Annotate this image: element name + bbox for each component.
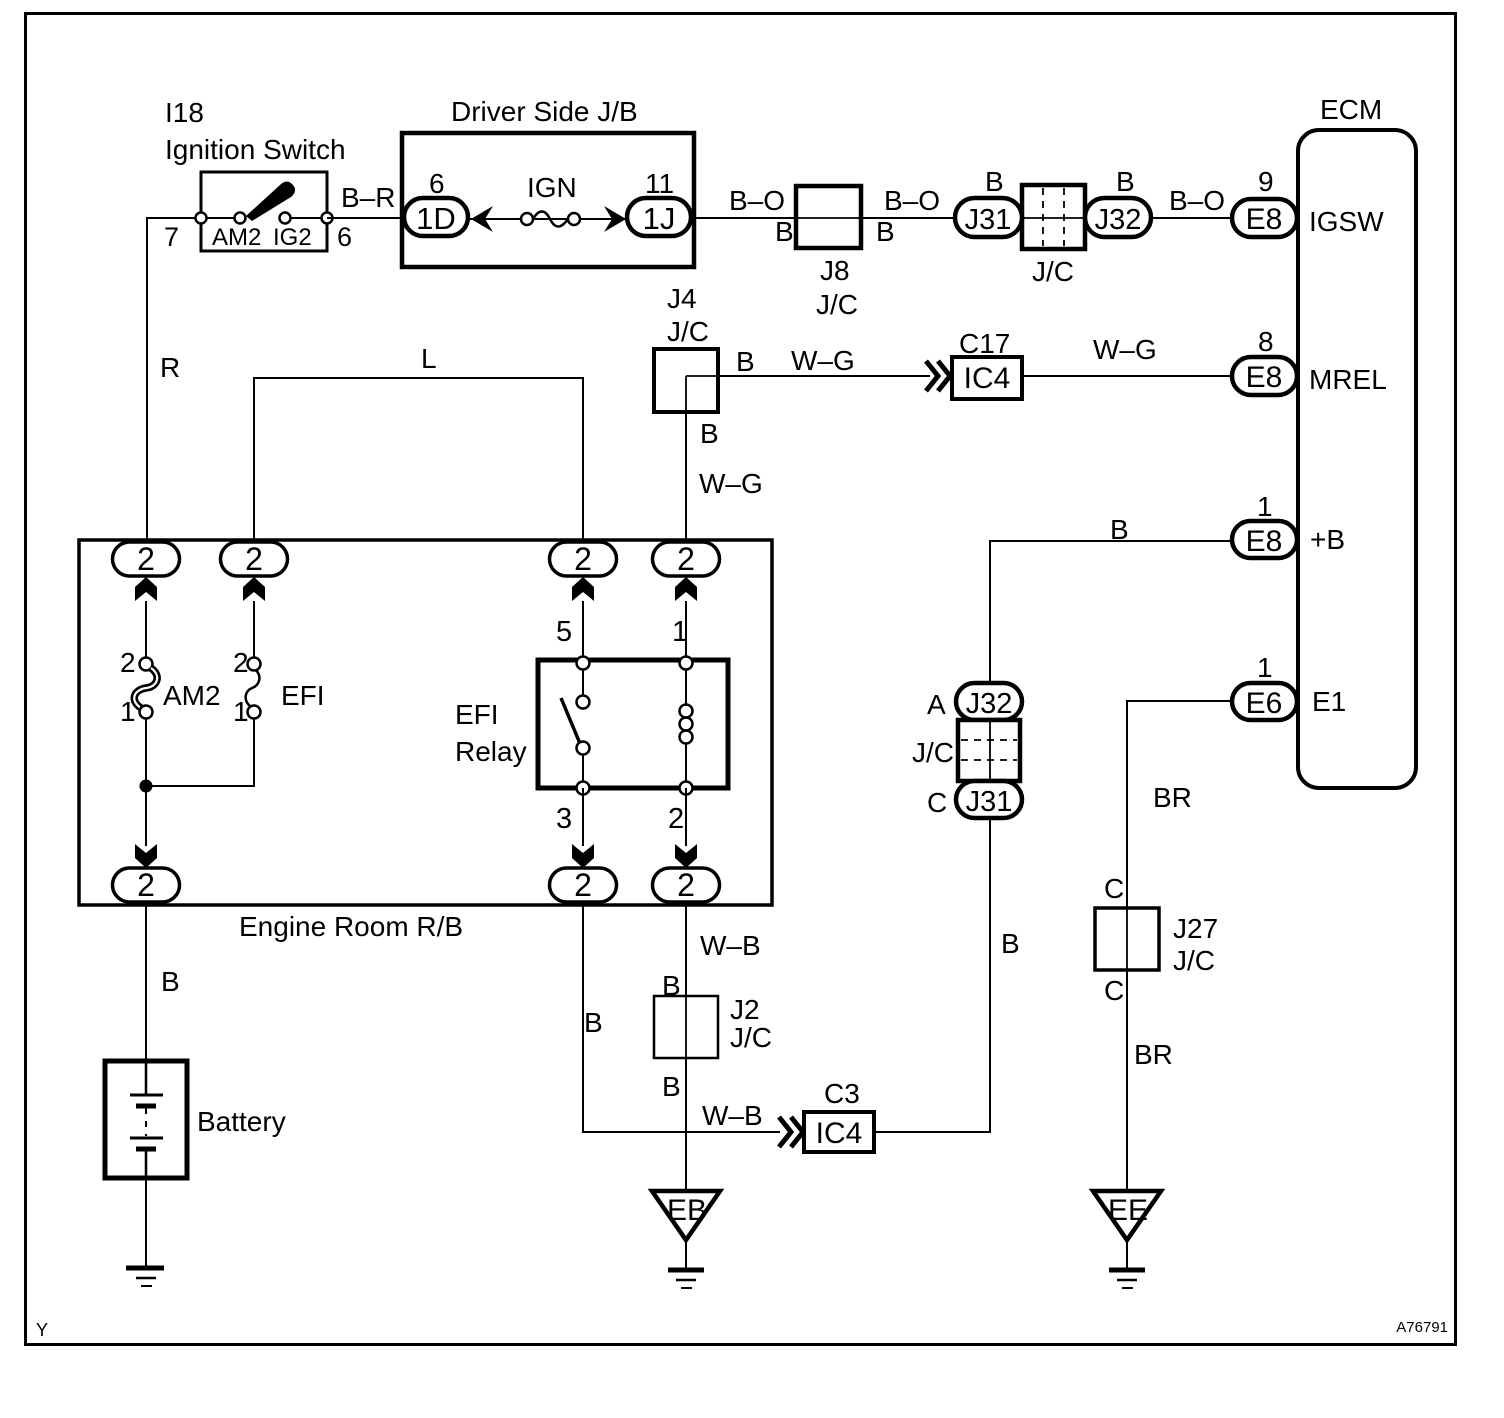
svg-text:2: 2 bbox=[677, 867, 695, 903]
svg-text:2: 2 bbox=[574, 867, 592, 903]
svg-text:A: A bbox=[927, 689, 946, 720]
svg-text:J31: J31 bbox=[965, 204, 1012, 236]
svg-text:B: B bbox=[662, 1071, 681, 1102]
connector 2 top relay5 bbox=[550, 542, 617, 576]
wire: switch internal IG2 side bbox=[285, 217, 327, 219]
svg-text:BR: BR bbox=[1134, 1039, 1173, 1070]
svg-text:W–G: W–G bbox=[699, 468, 763, 499]
connector J31 right column bbox=[956, 781, 1022, 818]
svg-text:EFI: EFI bbox=[281, 680, 325, 711]
svg-text:IG2: IG2 bbox=[273, 224, 312, 251]
svg-text:+B: +B bbox=[1310, 524, 1345, 555]
svg-text:BR: BR bbox=[1153, 782, 1192, 813]
svg-text:1: 1 bbox=[1257, 491, 1273, 522]
wire J4 to C17 bbox=[686, 375, 930, 377]
switch contact AM2 bbox=[235, 213, 246, 224]
wire battery to ground bbox=[145, 1178, 147, 1268]
junction connector J27 box bbox=[1095, 908, 1159, 970]
connector J31 bbox=[955, 198, 1022, 237]
arrow up col relay1 bbox=[675, 577, 697, 601]
connector E8 pin 9 IGSW bbox=[1232, 199, 1297, 237]
svg-text:J32: J32 bbox=[1095, 204, 1142, 236]
svg-text:2: 2 bbox=[245, 541, 263, 577]
wire through J8 bbox=[796, 217, 861, 219]
svg-text:2: 2 bbox=[137, 867, 155, 903]
connector 2 top EFI bbox=[221, 542, 288, 576]
svg-text:Relay: Relay bbox=[455, 736, 527, 767]
wire relay3 down bbox=[582, 788, 584, 846]
svg-text:7: 7 bbox=[164, 222, 179, 252]
svg-text:J4: J4 bbox=[667, 283, 697, 314]
connector E8 pin 1 +B bbox=[1232, 521, 1297, 558]
switch terminal pin 6 bbox=[322, 213, 333, 224]
svg-text:2: 2 bbox=[668, 803, 684, 835]
wire col EFI lower to junction bbox=[152, 718, 254, 786]
svg-text:W–B: W–B bbox=[702, 1100, 763, 1131]
wire relay3 to C3 bbox=[583, 902, 780, 1132]
ground EE bbox=[1093, 1191, 1161, 1240]
svg-text:J2: J2 bbox=[730, 994, 760, 1025]
svg-text:IC4: IC4 bbox=[964, 362, 1011, 395]
arrow up col AM2 bbox=[135, 577, 157, 601]
connector 1D bbox=[404, 198, 468, 236]
wire B-R switch to J/B bbox=[327, 217, 404, 219]
svg-text:J27: J27 bbox=[1173, 913, 1218, 944]
ECM box bbox=[1298, 130, 1416, 788]
arrow right at 1J bbox=[604, 206, 626, 232]
wire R: ignition switch pin7 left + down to Engine Room R/B bbox=[147, 218, 201, 542]
svg-text:I18: I18 bbox=[165, 97, 204, 128]
svg-text:B: B bbox=[1110, 514, 1129, 545]
svg-text:J/C: J/C bbox=[730, 1022, 772, 1053]
svg-text:ECM: ECM bbox=[1320, 94, 1382, 125]
wire relay1 col bbox=[685, 601, 687, 660]
svg-text:EFI: EFI bbox=[455, 699, 499, 730]
arrow left at 1D bbox=[471, 206, 493, 232]
wire col AM2 lower bbox=[145, 718, 147, 846]
svg-text:MREL: MREL bbox=[1309, 364, 1387, 395]
fuse AM2 bbox=[140, 658, 153, 671]
junction connector J8 box bbox=[796, 186, 861, 248]
svg-text:L: L bbox=[421, 343, 437, 374]
svg-text:B: B bbox=[584, 1007, 603, 1038]
svg-text:B: B bbox=[1001, 928, 1020, 959]
svg-text:1D: 1D bbox=[416, 201, 456, 236]
svg-text:B: B bbox=[876, 216, 895, 247]
wire J32 to E8 bbox=[1151, 217, 1235, 219]
fuse IGN bbox=[521, 213, 533, 225]
svg-text:EE: EE bbox=[1108, 1194, 1148, 1227]
svg-text:IGN: IGN bbox=[527, 172, 577, 203]
switch contact IG2 bbox=[280, 213, 291, 224]
relay contact circles left bbox=[577, 657, 590, 670]
svg-text:C: C bbox=[927, 787, 947, 818]
svg-text:IC4: IC4 bbox=[816, 1117, 863, 1150]
svg-text:C: C bbox=[1104, 975, 1124, 1006]
wire battery column bbox=[145, 902, 147, 1097]
svg-text:8: 8 bbox=[1258, 326, 1274, 357]
EFI relay box bbox=[538, 660, 728, 788]
svg-text:6: 6 bbox=[337, 222, 352, 252]
svg-text:B–O: B–O bbox=[729, 185, 785, 216]
svg-text:11: 11 bbox=[645, 168, 674, 199]
svg-text:Ignition Switch: Ignition Switch bbox=[165, 134, 346, 165]
svg-text:J32: J32 bbox=[966, 688, 1013, 720]
wire: switch internal AM2 side bbox=[201, 217, 240, 219]
svg-text:C17: C17 bbox=[959, 328, 1010, 359]
connector C17 IC4 box bbox=[952, 357, 1022, 399]
arrow down col relay3 bbox=[572, 844, 594, 868]
relay switch blade bbox=[561, 698, 581, 746]
svg-text:E6: E6 bbox=[1246, 687, 1283, 720]
svg-text:Y: Y bbox=[36, 1320, 48, 1340]
svg-text:J/C: J/C bbox=[1173, 945, 1215, 976]
svg-text:E8: E8 bbox=[1246, 525, 1283, 558]
relay coil bbox=[680, 705, 693, 718]
svg-text:3: 3 bbox=[556, 803, 572, 835]
svg-text:J8: J8 bbox=[820, 255, 850, 286]
svg-text:J/C: J/C bbox=[1032, 256, 1074, 287]
wire J8 to J31 bbox=[861, 217, 958, 219]
svg-text:2: 2 bbox=[677, 541, 695, 577]
junction dot bbox=[140, 780, 153, 793]
junction connector J/C box right column bbox=[958, 720, 1020, 781]
arrow up col EFI bbox=[243, 577, 265, 601]
svg-text:6: 6 bbox=[429, 168, 445, 199]
junction connector J/C box (J31/J32) bbox=[1022, 185, 1085, 249]
wire L: pi-shaped EFI fuse to relay pin 5 bbox=[254, 378, 583, 542]
svg-text:2: 2 bbox=[574, 541, 592, 577]
battery box bbox=[105, 1061, 187, 1178]
connector E6 pin 1 E1 bbox=[1232, 683, 1297, 720]
chevrons into C17 bbox=[926, 361, 938, 391]
wire C3 to J31 bbox=[874, 818, 990, 1132]
connector 2 bottom relay3 bbox=[550, 868, 617, 902]
svg-text:B: B bbox=[985, 166, 1004, 197]
connector C3 IC4 box bbox=[804, 1112, 874, 1152]
svg-text:1J: 1J bbox=[643, 201, 676, 236]
relay contact wire bbox=[582, 663, 584, 702]
svg-text:W–B: W–B bbox=[700, 930, 761, 961]
svg-text:B: B bbox=[1116, 166, 1135, 197]
svg-text:AM2: AM2 bbox=[163, 680, 221, 711]
svg-text:1: 1 bbox=[233, 696, 249, 727]
wire J4 down to Engine Room R/B bbox=[685, 376, 687, 542]
svg-text:2: 2 bbox=[120, 647, 136, 678]
svg-text:1: 1 bbox=[672, 616, 688, 648]
arrow down col AM2 bbox=[135, 844, 157, 868]
svg-text:W–G: W–G bbox=[1093, 334, 1157, 365]
junction connector J2 box bbox=[654, 996, 718, 1058]
wire 1J to J8 bbox=[691, 217, 796, 219]
svg-text:C3: C3 bbox=[824, 1078, 860, 1109]
svg-text:2: 2 bbox=[137, 541, 155, 577]
ignition switch I18 box bbox=[201, 172, 327, 251]
svg-text:Engine Room R/B: Engine Room R/B bbox=[239, 911, 463, 942]
svg-text:R: R bbox=[160, 352, 180, 383]
arrow up col relay5 bbox=[572, 577, 594, 601]
wire col EFI upper bbox=[253, 601, 255, 658]
wire C17 to E8 MREL bbox=[1022, 375, 1235, 377]
relay coil wire bbox=[685, 663, 687, 706]
svg-text:2: 2 bbox=[233, 647, 249, 678]
Engine Room R/B box bbox=[79, 540, 772, 905]
connector J32 bbox=[1085, 198, 1151, 237]
wire relay2 down to EB bbox=[685, 902, 687, 1191]
svg-text:B–R: B–R bbox=[341, 182, 395, 213]
connector E8 pin 8 MREL bbox=[1232, 357, 1297, 395]
fuse EFI bbox=[248, 658, 261, 671]
svg-text:B: B bbox=[775, 216, 794, 247]
svg-text:EB: EB bbox=[667, 1194, 707, 1227]
ground battery bbox=[126, 1266, 164, 1271]
svg-text:A76791: A76791 bbox=[1396, 1319, 1448, 1336]
connector 2 top AM2 bbox=[113, 542, 180, 576]
arrow down col relay2 bbox=[675, 844, 697, 868]
svg-text:E1: E1 bbox=[1312, 686, 1346, 717]
ground EB bbox=[652, 1191, 720, 1240]
Driver Side J/B box bbox=[402, 133, 694, 267]
svg-text:E8: E8 bbox=[1246, 203, 1283, 236]
svg-text:1: 1 bbox=[120, 696, 136, 727]
svg-text:1: 1 bbox=[1257, 652, 1273, 683]
svg-text:B–O: B–O bbox=[884, 185, 940, 216]
svg-text:5: 5 bbox=[556, 616, 572, 648]
svg-text:W–G: W–G bbox=[791, 345, 855, 376]
wire relay2 down bbox=[685, 788, 687, 846]
svg-text:9: 9 bbox=[1258, 166, 1274, 197]
svg-text:J/C: J/C bbox=[816, 289, 858, 320]
svg-text:IGSW: IGSW bbox=[1309, 206, 1384, 237]
svg-text:B–O: B–O bbox=[1169, 185, 1225, 216]
svg-text:C: C bbox=[1104, 873, 1124, 904]
wire relay5 col bbox=[582, 601, 584, 660]
junction connector J4 box bbox=[654, 349, 718, 412]
chevrons into C3 bbox=[779, 1117, 791, 1147]
battery cell internals bbox=[145, 1063, 148, 1095]
svg-text:B: B bbox=[736, 346, 755, 377]
wire inside J/B bbox=[468, 218, 627, 220]
svg-text:AM2: AM2 bbox=[212, 224, 261, 251]
connector 2 bottom battery bbox=[113, 868, 180, 902]
svg-text:J/C: J/C bbox=[912, 737, 954, 768]
svg-text:E8: E8 bbox=[1246, 361, 1283, 394]
svg-text:B: B bbox=[161, 966, 180, 997]
wire J32 up to E8 +B bbox=[990, 541, 1235, 683]
connector 2 bottom relay2 bbox=[653, 868, 720, 902]
connector J32 right column bbox=[956, 683, 1022, 720]
svg-text:Driver Side J/B: Driver Side J/B bbox=[451, 96, 638, 127]
wire col AM2 upper bbox=[145, 601, 147, 658]
svg-text:Battery: Battery bbox=[197, 1106, 286, 1137]
svg-text:J/C: J/C bbox=[667, 316, 709, 347]
svg-text:B: B bbox=[700, 418, 719, 449]
connector 2 top relay1 bbox=[653, 542, 720, 576]
wire E6 to J27 to EE bbox=[1127, 701, 1232, 1191]
connector 1J bbox=[627, 198, 691, 236]
svg-text:J31: J31 bbox=[966, 786, 1013, 818]
switch terminal pin 7 bbox=[196, 213, 207, 224]
switch lever bbox=[246, 182, 295, 222]
